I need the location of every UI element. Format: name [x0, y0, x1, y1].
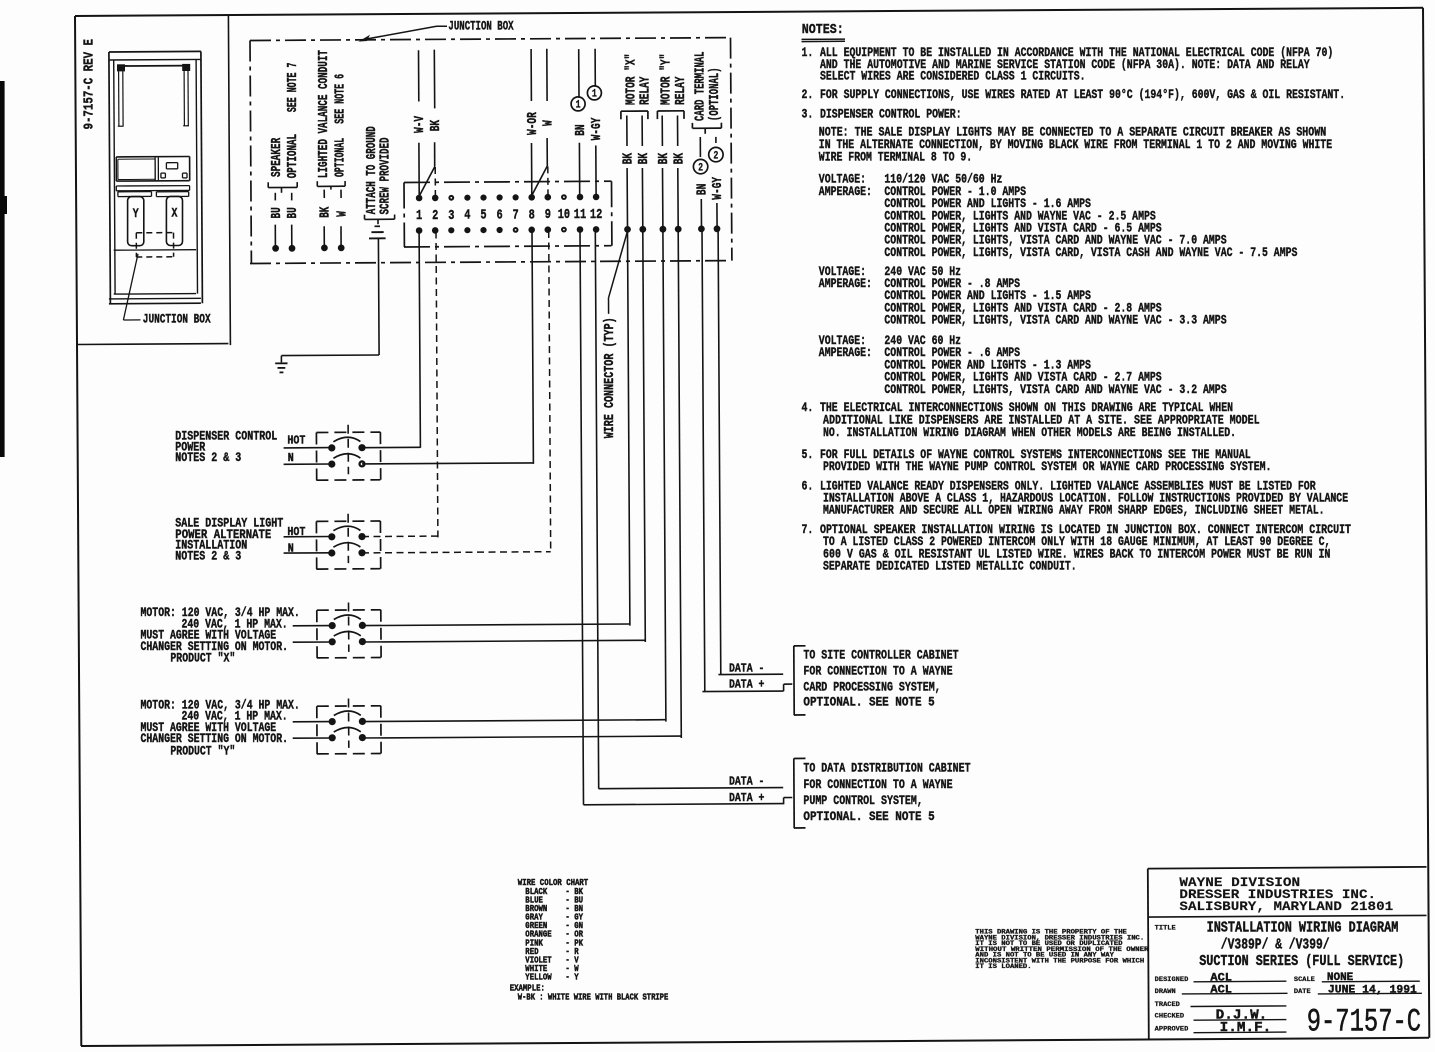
svg-text:SCREW PROVIDED: SCREW PROVIDED [378, 138, 393, 215]
svg-text:CONTROL POWER, LIGHTS, VISTA C: CONTROL POWER, LIGHTS, VISTA CARD, VISTA… [884, 245, 1297, 260]
relay wire BK 2 connector dot [639, 226, 646, 233]
wire s1 HOT right to terminal 1 [362, 446, 420, 448]
panel display window [166, 162, 177, 164]
svg-text:OPTIONAL. SEE NOTE 5: OPTIONAL. SEE NOTE 5 [803, 809, 934, 824]
svg-text:YELLOW: YELLOW [525, 972, 552, 983]
scan edge black bar [0, 81, 5, 457]
svg-text:2.: 2. [802, 87, 814, 102]
svg-text:BU: BU [270, 207, 285, 218]
wire W-OR lower [531, 143, 533, 195]
dashed wire s2 N right [362, 552, 551, 553]
lower band right [156, 191, 188, 193]
wire W-GY data1 [594, 49, 596, 87]
wire BK valance [323, 226, 325, 246]
switch motor product Y lower arc [334, 727, 361, 732]
svg-text:7.: 7. [802, 522, 814, 537]
svg-text:4.: 4. [802, 400, 814, 415]
svg-text:W-GY: W-GY [711, 176, 726, 199]
left hanger bar [118, 71, 120, 126]
svg-text:DESIGNED: DESIGNED [1155, 976, 1189, 984]
svg-text:NOTES 2 & 3: NOTES 2 & 3 [175, 549, 241, 564]
junction box leader arrowhead [358, 35, 370, 42]
svg-text:MOTOR "Y": MOTOR "Y" [659, 54, 675, 105]
wire N s2 [284, 552, 332, 554]
circled 1 on BN [571, 97, 585, 111]
svg-text:WIRE FROM TERMINAL 8 TO 9.: WIRE FROM TERMINAL 8 TO 9. [819, 149, 972, 164]
wire W-V lower [418, 143, 420, 196]
svg-text:FOR CONNECTION TO A WAYNE: FOR CONNECTION TO A WAYNE [803, 777, 952, 792]
svg-text:9: 9 [545, 208, 551, 223]
svg-text:ACL: ACL [1210, 972, 1232, 984]
relay wire BK 4 lower [677, 168, 679, 228]
relay wire BK 2 upper [641, 116, 643, 147]
card system bracket [793, 646, 795, 715]
switch box motor product X [317, 609, 381, 611]
tick W valance [340, 190, 342, 198]
svg-text:3: 3 [448, 209, 454, 224]
wire BN data1 lower [578, 143, 580, 195]
wire BN data1 [578, 49, 580, 98]
valance bracket [317, 185, 345, 187]
svg-text:NO. INSTALLATION WIRING DIAGRA: NO. INSTALLATION WIRING DIAGRAM WHEN OTH… [823, 425, 1236, 440]
svg-text:LIGHTED VALANCE CONDUIT: LIGHTED VALANCE CONDUIT [317, 50, 332, 178]
svg-text:CONTROL POWER, LIGHTS, VISTA C: CONTROL POWER, LIGHTS, VISTA CARD AND WA… [884, 313, 1226, 328]
svg-text:W-OR: W-OR [526, 112, 541, 135]
svg-text:BN: BN [696, 184, 711, 195]
left hanger cap [117, 64, 125, 71]
wire W-GY card lower [716, 203, 718, 228]
svg-text:W: W [336, 211, 351, 217]
relay wire BK 1 lower [626, 168, 628, 228]
lower band left [118, 191, 152, 193]
svg-text:DRAWN: DRAWN [1155, 988, 1176, 996]
nozzle boot X [166, 196, 182, 245]
relay wire BK 2 lower [641, 168, 643, 228]
svg-text:6.: 6. [802, 478, 814, 493]
svg-text:2: 2 [432, 209, 438, 224]
svg-text:ACL: ACL [1210, 985, 1232, 997]
dispenser outline outer [109, 50, 201, 53]
svg-text:TRACED: TRACED [1155, 1001, 1180, 1009]
svg-text:I.M.F.: I.M.F. [1220, 1021, 1272, 1036]
svg-text:W-BK : WHITE WIRE WITH BLACK S: W-BK : WHITE WIRE WITH BLACK STRIPE [518, 991, 669, 1002]
ground attach plate 1 [371, 231, 383, 233]
svg-text:9-7157-C REV E: 9-7157-C REV E [82, 39, 98, 130]
panel divider [154, 158, 156, 182]
svg-text:5: 5 [480, 209, 486, 224]
svg-text:DATE: DATE [1294, 988, 1311, 996]
svg-text:DATA -: DATA - [729, 662, 764, 676]
wire motor X left top [293, 625, 333, 627]
svg-text:CONTROL POWER, LIGHTS, VISTA C: CONTROL POWER, LIGHTS, VISTA CARD AND WA… [884, 382, 1226, 397]
svg-text:SCALE: SCALE [1294, 976, 1315, 984]
wire W lower + diagonal to terminal 8 [546, 138, 548, 166]
form underlines left [1194, 980, 1287, 983]
switch box sale display light [316, 520, 380, 522]
svg-text:DATA -: DATA - [729, 775, 764, 789]
figure junction box leader [123, 254, 138, 320]
wire motor Y right top to BK3 [362, 720, 666, 722]
svg-text:- Y: - Y [565, 972, 578, 983]
svg-text:DISPENSER CONTROL POWER:: DISPENSER CONTROL POWER: [820, 106, 962, 121]
switch motor product Y upper arc [334, 711, 361, 716]
svg-text:OPTIONAL: OPTIONAL [333, 138, 348, 177]
card BN dash [699, 137, 701, 157]
svg-text:MANUFACTURER AND SECURE ALL OP: MANUFACTURER AND SECURE ALL OPEN WIRING … [823, 503, 1325, 518]
svg-text:PUMP CONTROL SYSTEM,: PUMP CONTROL SYSTEM, [803, 793, 922, 808]
relay wire BK 1 connector dot [624, 226, 631, 233]
panel inner outline left [118, 158, 155, 160]
circled 2 on BN [693, 159, 707, 173]
svg-text:4: 4 [464, 209, 470, 224]
wire HOT s1 [284, 447, 332, 449]
dispenser figure box bottom edge [77, 343, 228, 346]
card BN connector dot [698, 226, 705, 233]
svg-text:CARD PROCESSING SYSTEM,: CARD PROCESSING SYSTEM, [803, 680, 940, 695]
svg-text:FOR SUPPLY CONNECTIONS, USE WI: FOR SUPPLY CONNECTIONS, USE WIRES RATED … [820, 87, 1345, 102]
svg-text:WIRE CONNECTOR (TYP): WIRE CONNECTOR (TYP) [602, 317, 618, 438]
ground symbol bars [275, 362, 287, 364]
switch dispenser control power center line [347, 425, 349, 474]
dashed wire terminal 2 down to sale switch [436, 232, 438, 538]
relay wire BK 3 lower [662, 168, 664, 228]
circled 1 on W-GY [587, 86, 601, 100]
svg-text:JUNE 14, 1991: JUNE 14, 1991 [1328, 984, 1417, 996]
wire W-OR [530, 49, 532, 101]
svg-text:3.: 3. [802, 106, 814, 121]
right hanger cap [182, 64, 190, 71]
card W-GY connector dot [714, 225, 721, 232]
wire W supply [546, 49, 548, 101]
svg-text:IT IS LOANED.: IT IS LOANED. [975, 963, 1031, 970]
svg-text:OPTIONAL. SEE NOTE 5: OPTIONAL. SEE NOTE 5 [803, 695, 934, 710]
svg-text:BK: BK [429, 119, 444, 131]
terminal block dash-dot box [404, 181, 612, 182]
pump system bracket [793, 759, 795, 829]
wire W valance [340, 226, 342, 246]
control panel [116, 156, 189, 158]
svg-text:DATA +: DATA + [729, 678, 764, 692]
dispenser outline inner rails [114, 60, 115, 294]
tick BK valance [323, 190, 325, 198]
svg-text:X: X [171, 206, 177, 221]
switch motor product X upper arc [334, 615, 361, 620]
switch dispenser control power lower arc [333, 454, 360, 459]
ground wire down from junction box [377, 238, 380, 355]
ground symbol stem [280, 356, 282, 363]
relay wire BK 3 upper [661, 116, 663, 147]
svg-text:8: 8 [529, 208, 535, 223]
ground attach dash [375, 225, 381, 227]
svg-text:AMPERAGE:: AMPERAGE: [819, 184, 872, 199]
switch motor product Y contacts [329, 718, 336, 725]
wire BN card lower [700, 199, 702, 228]
svg-text:JUNCTION BOX: JUNCTION BOX [448, 19, 513, 34]
svg-text:1: 1 [592, 89, 597, 101]
svg-text:OPTIONAL: OPTIONAL [286, 134, 301, 178]
svg-text:NOTES 2 & 3: NOTES 2 & 3 [175, 450, 241, 465]
relay wire BK 1 upper [626, 116, 628, 147]
svg-text:(OPTIONAL): (OPTIONAL) [707, 68, 723, 122]
svg-text:1: 1 [576, 100, 581, 112]
dispenser figure box right edge [228, 15, 230, 345]
speaker bracket [268, 186, 297, 188]
figure junction box dashed rect [136, 232, 173, 234]
svg-text:N: N [288, 451, 294, 465]
switch motor product Y center line [348, 699, 350, 748]
svg-text:SEE NOTE 6: SEE NOTE 6 [333, 74, 348, 124]
svg-text:SEPARATE DEDICATED LISTED META: SEPARATE DEDICATED LISTED METALLIC CONDU… [823, 559, 1077, 574]
switch sale display light contacts [328, 533, 335, 540]
switch sale display light center line [347, 514, 349, 563]
svg-text:SALISBURY, MARYLAND 21801: SALISBURY, MARYLAND 21801 [1179, 899, 1393, 914]
svg-text:BK: BK [319, 206, 334, 218]
svg-text:2: 2 [713, 150, 718, 162]
motor X relay bracket [621, 110, 648, 112]
svg-text:RELAY: RELAY [674, 76, 689, 105]
panel button right [183, 172, 188, 174]
dispenser bottom band lines [114, 293, 196, 296]
card terminal bracket [692, 127, 721, 129]
switch motor product X center line [348, 603, 350, 652]
switch box dispenser control power [316, 431, 380, 433]
motor Y relay bracket [657, 110, 684, 112]
wire N s1 [284, 463, 332, 465]
wire terminal 11 down to pump DATA+ with jog [580, 231, 584, 805]
svg-text:TITLE: TITLE [1155, 925, 1176, 933]
switch box motor product Y [317, 705, 381, 707]
svg-text:12: 12 [590, 208, 602, 223]
wire BN card to DATA+ with jog [702, 229, 705, 692]
circled 2 on W-GY [709, 147, 723, 161]
svg-text:6: 6 [497, 209, 503, 224]
svg-text:2: 2 [698, 162, 703, 174]
svg-text:NOTES:: NOTES: [802, 22, 844, 38]
svg-text:Y: Y [133, 206, 139, 221]
svg-text:FOR CONNECTION TO A WAYNE: FOR CONNECTION TO A WAYNE [803, 664, 952, 679]
tick BU 2 [291, 193, 293, 201]
wire HOT s2 [284, 536, 332, 538]
wire BK lower + diagonal to terminal 1 [434, 142, 436, 166]
svg-text:5.: 5. [802, 447, 814, 462]
dashed alternate W to terminal 9 [547, 166, 549, 194]
wire motor Y left top [293, 721, 333, 723]
svg-text:1: 1 [416, 209, 422, 224]
ground attach plate 2 [369, 237, 386, 239]
wire W-GY card to DATA- [718, 229, 721, 675]
svg-text:BK: BK [672, 152, 687, 164]
svg-text:SEE NOTE 7: SEE NOTE 7 [286, 63, 301, 113]
switch sale display light upper arc [333, 526, 360, 531]
wire W-GY data1 lower [595, 146, 597, 195]
svg-text:1.: 1. [802, 45, 814, 60]
svg-text:9-7157-C: 9-7157-C [1307, 1004, 1421, 1041]
svg-text:PROVIDED WITH THE WAYNE PUMP C: PROVIDED WITH THE WAYNE PUMP CONTROL SYS… [823, 459, 1271, 474]
wire motor Y right bottom to BK4 [362, 736, 681, 738]
svg-text:BK: BK [657, 152, 672, 164]
card W-GY dash [715, 137, 717, 143]
switch motor product X lower arc [334, 631, 361, 636]
terminal top contact dots [416, 195, 423, 202]
wire motor X right bottom to BK2 [362, 640, 645, 642]
terminal bottom contact dots [416, 227, 423, 234]
svg-text:BK: BK [622, 152, 637, 164]
wire terminal 12 down to pump DATA- [595, 231, 598, 789]
wire motor Y left bottom [293, 737, 333, 739]
mid band rect [116, 185, 189, 187]
tick BU 1 [274, 193, 276, 201]
dispenser top band line [109, 58, 201, 61]
svg-text:10: 10 [558, 208, 570, 223]
svg-text:INSTALLATION WIRING DIAGRAM: INSTALLATION WIRING DIAGRAM [1207, 921, 1399, 937]
switch dispenser control power contacts [328, 444, 335, 451]
svg-text:MOTOR "X": MOTOR "X" [623, 54, 639, 105]
outer border frame [75, 8, 1423, 16]
svg-text:W-GY: W-GY [590, 117, 605, 140]
wire s1 N right to terminal 8 [362, 463, 533, 464]
svg-text:SELECT WIRES ARE CONSIDERED CL: SELECT WIRES ARE CONSIDERED CLASS 1 CIRC… [820, 69, 1086, 84]
relay wire BK 3 connector dot [660, 226, 667, 233]
panel button left [161, 172, 166, 174]
valance bar [121, 65, 186, 67]
svg-text:AMPERAGE:: AMPERAGE: [819, 276, 872, 291]
nozzle boot Y [128, 197, 144, 246]
wire connector label leader [608, 298, 610, 314]
switch motor product X contacts [329, 622, 336, 629]
title block outline [1148, 869, 1149, 1039]
switch sale display light lower arc [333, 543, 360, 548]
svg-text:BN: BN [574, 124, 589, 135]
dashed wire terminal 9 down [549, 231, 551, 552]
scale date underlines [1322, 980, 1420, 983]
title block divider [1148, 915, 1427, 917]
svg-text:BK: BK [637, 152, 652, 164]
svg-text:JUNCTION BOX: JUNCTION BOX [143, 312, 211, 327]
svg-text:RELAY: RELAY [638, 76, 653, 105]
svg-text:PRODUCT "X": PRODUCT "X" [170, 651, 235, 666]
svg-text:TO SITE CONTROLLER CABINET: TO SITE CONTROLLER CABINET [803, 648, 958, 663]
svg-text:7: 7 [513, 208, 519, 223]
wire BU speaker 1 [274, 225, 276, 247]
svg-text:PRODUCT "Y": PRODUCT "Y" [170, 743, 235, 758]
right hanger bar [183, 71, 185, 126]
svg-text:APPROVED: APPROVED [1155, 1026, 1189, 1034]
svg-text:W-V: W-V [413, 115, 428, 133]
svg-text:CARD TERMINAL: CARD TERMINAL [694, 52, 709, 122]
switch dispenser control power upper arc [333, 437, 360, 442]
svg-text:HOT: HOT [287, 434, 305, 448]
relay wire BK 4 upper [677, 116, 679, 147]
svg-text:W: W [542, 120, 557, 126]
svg-text:AMPERAGE:: AMPERAGE: [819, 345, 872, 360]
attach-to-ground bracket [365, 218, 395, 220]
dashed wire s2 HOT right [362, 535, 438, 538]
wire motor X right top to BK1 [362, 624, 630, 626]
svg-text:SPEAKER: SPEAKER [270, 137, 285, 177]
svg-text:/V389P/ & /V399/: /V389P/ & /V399/ [1221, 938, 1330, 954]
junction box leader line [437, 25, 448, 27]
junction box dashed outline [250, 38, 731, 41]
wire W-V [418, 50, 420, 101]
wire BK supply [433, 50, 435, 109]
svg-text:SUCTION SERIES (FULL SERVICE): SUCTION SERIES (FULL SERVICE) [1199, 954, 1404, 970]
svg-text:TO DATA DISTRIBUTION CABINET: TO DATA DISTRIBUTION CABINET [803, 761, 970, 776]
svg-text:CHECKED: CHECKED [1155, 1013, 1184, 1021]
figure shelf line [114, 249, 196, 252]
wire motor X left bottom [293, 641, 333, 643]
wire BU speaker 2 [291, 225, 293, 247]
svg-text:11: 11 [574, 208, 586, 223]
dashed alternate BK to terminal 2 [434, 167, 436, 195]
svg-text:DATA +: DATA + [729, 791, 764, 805]
svg-text:BU: BU [286, 207, 301, 218]
ground wire horizontal [281, 354, 379, 357]
relay wire BK 4 connector dot [675, 226, 682, 233]
